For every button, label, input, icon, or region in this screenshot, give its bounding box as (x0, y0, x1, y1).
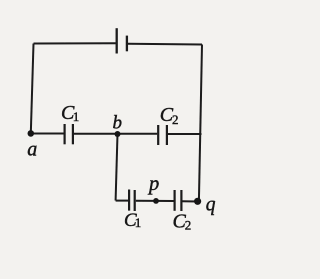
svg-text:2: 2 (172, 112, 179, 127)
svg-text:1: 1 (73, 109, 80, 124)
svg-text:a: a (27, 138, 37, 160)
svg-text:b: b (113, 113, 123, 134)
svg-text:q: q (206, 195, 216, 216)
svg-text:1: 1 (135, 215, 142, 230)
svg-text:2: 2 (185, 218, 192, 233)
svg-text:p: p (147, 173, 159, 195)
